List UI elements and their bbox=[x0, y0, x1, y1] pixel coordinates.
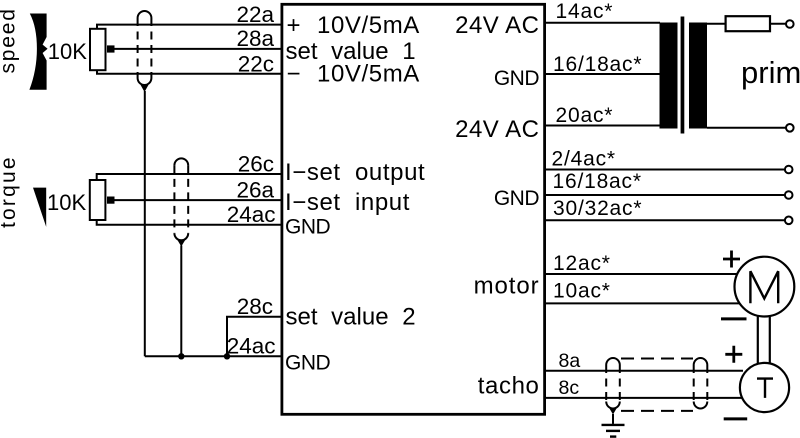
svg-text:tacho: tacho bbox=[478, 372, 540, 399]
svg-text:8c: 8c bbox=[559, 377, 580, 399]
terminal primary bottom bbox=[786, 124, 794, 132]
wire 24ac GND bus bbox=[145, 355, 281, 357]
motor M1 circle bbox=[735, 257, 795, 317]
svg-text:16/18ac*: 16/18ac* bbox=[553, 170, 642, 193]
svg-text:I−set output: I−set output bbox=[285, 159, 425, 186]
ground symbol bbox=[602, 425, 625, 437]
svg-text:10V/5mA: 10V/5mA bbox=[317, 61, 420, 88]
terminal 2/4ac* bbox=[785, 166, 793, 174]
wire 28a bbox=[114, 48, 281, 50]
wire 22c bbox=[97, 70, 281, 74]
svg-text:22a: 22a bbox=[236, 2, 274, 27]
svg-text:28a: 28a bbox=[236, 26, 274, 51]
svg-text:speed: speed bbox=[0, 7, 20, 73]
svg-text:26a: 26a bbox=[236, 177, 274, 202]
wire 8a bbox=[545, 370, 743, 372]
svg-text:24ac: 24ac bbox=[227, 202, 276, 227]
box text - 10V/5mA bbox=[287, 61, 420, 88]
minus sign motor bbox=[721, 317, 747, 320]
box text + 10V/5mA bbox=[287, 12, 420, 39]
svg-text:set value 2: set value 2 bbox=[286, 304, 416, 331]
svg-text:motor: motor bbox=[474, 272, 540, 299]
minus sign tacho bbox=[724, 417, 748, 420]
wiper arrow R1 bbox=[107, 45, 115, 52]
transformer T1 secondary winding bbox=[660, 23, 678, 129]
svg-text:I−set input: I−set input bbox=[285, 189, 410, 216]
svg-text:16/18ac*: 16/18ac* bbox=[553, 53, 642, 76]
wire 2/4ac* bbox=[545, 169, 785, 171]
svg-text:GND: GND bbox=[285, 216, 331, 239]
svg-text:24V AC: 24V AC bbox=[455, 116, 539, 143]
wire 28c (set value 2) bbox=[227, 317, 281, 357]
svg-text:−: − bbox=[287, 61, 301, 88]
tacho shield left oval bbox=[606, 358, 620, 414]
wire primary top bbox=[707, 23, 786, 25]
fuse F1 bbox=[726, 16, 770, 31]
shield dashed bottom link bbox=[621, 410, 693, 412]
wiper arrow R2 bbox=[107, 197, 115, 204]
cable shield speed bbox=[138, 11, 152, 92]
svg-text:24ac: 24ac bbox=[227, 334, 276, 359]
wire 24ac bbox=[97, 220, 281, 225]
wire 20ac* bbox=[545, 125, 660, 127]
wire 8c bbox=[545, 397, 743, 399]
potentiometer R2 torque 10K bbox=[90, 180, 106, 220]
plus sign motor bbox=[723, 251, 740, 268]
svg-text:10ac*: 10ac* bbox=[553, 280, 611, 303]
potentiometer R1 speed 10K bbox=[90, 29, 106, 70]
svg-text:24V AC: 24V AC bbox=[455, 12, 539, 39]
tacho G1 circle bbox=[740, 363, 789, 412]
wire 26c bbox=[97, 174, 281, 180]
cable shield torque bbox=[174, 158, 188, 246]
junction torque drain bbox=[178, 353, 184, 359]
wire 16/18ac* (transformer) bbox=[545, 73, 660, 75]
svg-text:10K: 10K bbox=[48, 39, 87, 64]
svg-text:8a: 8a bbox=[559, 350, 581, 372]
svg-text:torque: torque bbox=[0, 155, 20, 228]
coupling motor-tacho bbox=[758, 316, 770, 365]
svg-text:10V/5mA: 10V/5mA bbox=[317, 12, 420, 39]
wire 26a bbox=[114, 199, 281, 201]
svg-text:prim: prim bbox=[741, 55, 800, 90]
svg-text:12ac*: 12ac* bbox=[553, 252, 611, 275]
svg-text:GND: GND bbox=[285, 351, 331, 374]
terminal 30/32ac* bbox=[785, 217, 793, 225]
pointer wedge speed bbox=[29, 14, 47, 90]
svg-text:28c: 28c bbox=[237, 294, 273, 319]
svg-text:20ac*: 20ac* bbox=[556, 104, 614, 127]
terminal primary top bbox=[786, 20, 794, 28]
svg-text:GND: GND bbox=[494, 187, 540, 210]
wire 16/18ac* (gnd) bbox=[545, 194, 785, 196]
transformer T1 primary winding bbox=[689, 23, 707, 129]
svg-text:14ac*: 14ac* bbox=[556, 0, 614, 23]
wire 30/32ac* bbox=[545, 219, 785, 221]
shield drain wire torque bbox=[180, 246, 182, 357]
tacho letter T bbox=[757, 379, 773, 398]
svg-text:22c: 22c bbox=[238, 52, 274, 77]
shield dashed top link bbox=[621, 358, 693, 360]
plus sign tacho bbox=[725, 346, 742, 363]
svg-text:2/4ac*: 2/4ac* bbox=[552, 147, 616, 170]
terminal 16/18ac* bbox=[785, 191, 793, 199]
controller box U1 bbox=[282, 4, 545, 414]
shield drain wire speed bbox=[144, 91, 146, 356]
wire 12ac* bbox=[545, 273, 738, 275]
svg-text:30/32ac*: 30/32ac* bbox=[553, 197, 642, 220]
transformer T1 core bbox=[681, 17, 685, 134]
svg-text:GND: GND bbox=[494, 67, 540, 90]
wire 22a bbox=[97, 25, 281, 29]
svg-text:+: + bbox=[287, 12, 301, 39]
wire 14ac* bbox=[545, 22, 660, 24]
wire primary bottom bbox=[707, 127, 786, 129]
motor letter M bbox=[750, 271, 778, 303]
ground lead bbox=[612, 414, 614, 424]
tacho shield right oval bbox=[694, 358, 708, 408]
pointer wedge torque bbox=[33, 188, 46, 227]
wire 10ac* bbox=[545, 302, 740, 304]
svg-text:10K: 10K bbox=[47, 190, 86, 215]
svg-text:26c: 26c bbox=[238, 152, 274, 177]
junction 28c branch bbox=[224, 353, 230, 359]
